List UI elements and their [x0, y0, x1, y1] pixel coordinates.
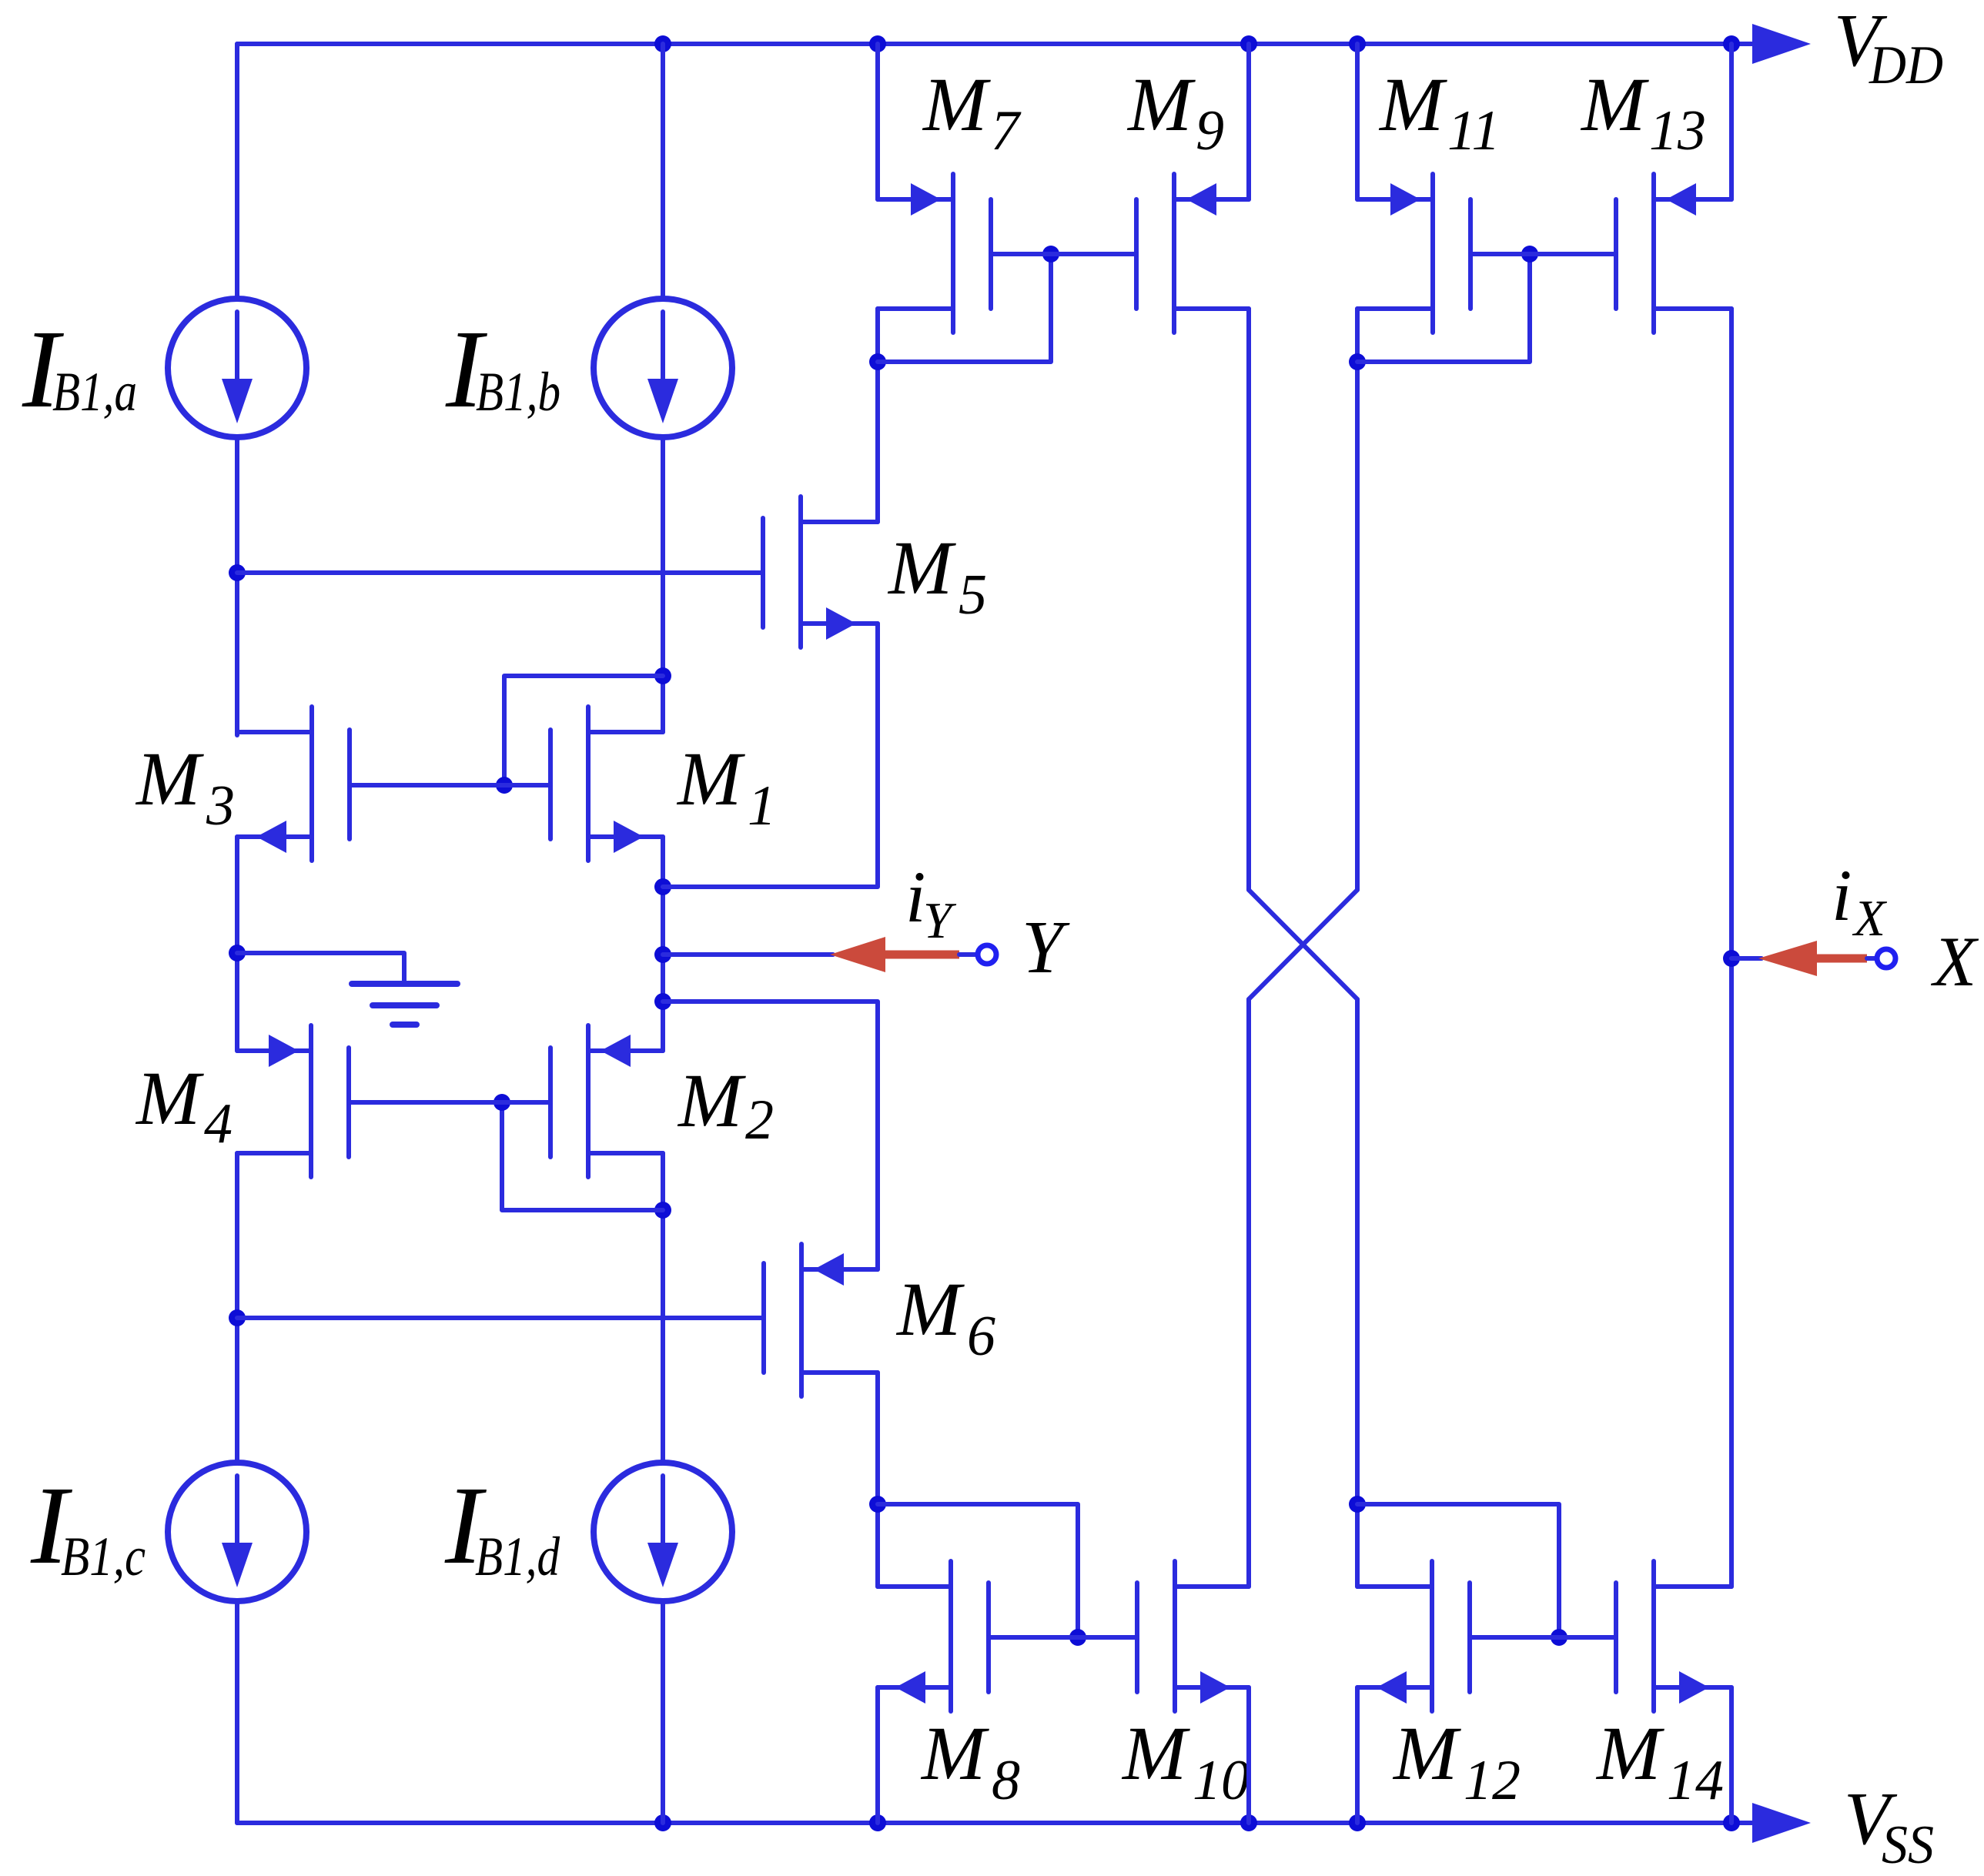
- transistor M4: [309, 1025, 313, 1177]
- svg-text:SS: SS: [1882, 1815, 1934, 1875]
- svg-text:11: 11: [1447, 99, 1501, 162]
- node dot M2-M4 gate: [493, 1094, 510, 1111]
- current source IB1,a: [168, 299, 306, 437]
- svg-text:M: M: [676, 736, 745, 821]
- wire: Y to M5 source: [663, 624, 878, 887]
- svg-text:9: 9: [1196, 99, 1224, 162]
- Y port terminal: [978, 945, 996, 964]
- svg-text:M: M: [1392, 1710, 1461, 1796]
- wire: IB1c to VSS rail: [235, 1600, 239, 1823]
- wire: M3 lower arm to M4 upper arm: [235, 837, 239, 1051]
- svg-text:M: M: [920, 1710, 989, 1796]
- wire: M4-M2 gate lead: [349, 1100, 550, 1105]
- wire: Y port stub: [959, 952, 977, 957]
- svg-text:1: 1: [748, 774, 776, 838]
- svg-text:6: 6: [967, 1305, 995, 1368]
- VSS rail arrow: [1752, 1803, 1811, 1843]
- node dot M7-M9 gate: [1042, 246, 1059, 263]
- wire: M11 drain down: [1355, 309, 1360, 890]
- transistor M3: [309, 707, 314, 861]
- wire: M2 drain to IB1d: [661, 1153, 665, 1463]
- svg-text:M: M: [135, 736, 204, 821]
- wire: M8 gate-drain tie: [878, 1504, 1078, 1637]
- wire: IB1d to VSS rail: [661, 1600, 665, 1823]
- wire: VDD rail: [237, 42, 1755, 46]
- svg-text:B1,c: B1,c: [61, 1526, 146, 1587]
- wire: M7-M9 gate lead: [991, 252, 1136, 256]
- wire: M10 source to VSS: [1246, 1687, 1251, 1823]
- node dot M11-M13 gate: [1521, 246, 1538, 263]
- node dot M6 gate tap: [229, 1309, 246, 1326]
- svg-text:M: M: [1595, 1710, 1664, 1796]
- transistor M11: [1430, 174, 1435, 333]
- transistor M6: [799, 1244, 804, 1396]
- wire: M13 drain to M14 drain (X column): [1729, 309, 1734, 1587]
- node dot Y-M5: [654, 878, 671, 895]
- wire: M8-M10 gate lead: [989, 1635, 1137, 1640]
- node dot M5 gate tap: [229, 564, 246, 581]
- wire: M12-M14 gate lead: [1470, 1635, 1616, 1640]
- wire: crossover diagonal M9-M12: [1249, 890, 1357, 999]
- wire: down to M12 drain: [1355, 999, 1360, 1587]
- svg-text:M: M: [1378, 62, 1447, 147]
- node dot M2 drain-gate tie: [654, 1202, 671, 1219]
- wire: VDD to M11 source: [1355, 44, 1360, 199]
- transistor M12: [1430, 1561, 1434, 1711]
- wire: IB1a to M3 source arm: [235, 437, 239, 735]
- node dot X port: [1723, 950, 1740, 967]
- node dot M1-M3 gate: [496, 777, 513, 794]
- svg-text:2: 2: [745, 1088, 774, 1152]
- wire: M1 gate tie: [504, 676, 663, 785]
- svg-text:M: M: [135, 1055, 204, 1141]
- node dot M7 drain tie: [869, 353, 886, 370]
- ground symbol: [352, 981, 457, 987]
- svg-text:M: M: [887, 525, 956, 610]
- X port current arrow i_X: [1814, 955, 1867, 963]
- node dots on VSS rail: [654, 1814, 671, 1831]
- svg-text:Y: Y: [923, 892, 957, 949]
- svg-text:10: 10: [1193, 1749, 1250, 1812]
- node dot M8-M10 gate: [1069, 1629, 1086, 1646]
- svg-text:B1,a: B1,a: [52, 361, 137, 423]
- wire: down to M10 drain: [1246, 999, 1251, 1587]
- wire: M11-M13 gate lead: [1470, 252, 1616, 256]
- wire: IB1b to M1 drain: [661, 437, 665, 732]
- wire: M9 drain down: [1246, 309, 1251, 890]
- wire: M12 source to VSS: [1355, 1687, 1360, 1823]
- wire: M14 source to VSS: [1729, 1687, 1734, 1823]
- wire: ground stub: [237, 953, 404, 984]
- svg-text:12: 12: [1464, 1749, 1521, 1812]
- svg-text:B1,b: B1,b: [476, 361, 560, 423]
- transistor M2: [586, 1025, 591, 1177]
- node dot M12-M14 gate: [1551, 1629, 1567, 1646]
- svg-text:M: M: [922, 62, 991, 147]
- wire: M7 drain to M5 drain: [875, 309, 880, 522]
- transistor M10: [1173, 1561, 1177, 1711]
- node dot M12 drain tie: [1349, 1496, 1366, 1513]
- node dot M1 drain-gate tie: [654, 667, 671, 684]
- wire: M2 gate tie: [502, 1102, 663, 1210]
- transistor M14: [1651, 1561, 1656, 1711]
- transistor M1: [586, 707, 591, 861]
- node dot ground tap: [229, 945, 246, 961]
- current source IB1,b: [594, 299, 732, 437]
- svg-text:i: i: [1832, 854, 1852, 936]
- node dots on VDD rail: [654, 35, 671, 52]
- svg-text:M: M: [1580, 62, 1649, 147]
- wire: M8 source to VSS: [875, 1687, 880, 1823]
- svg-text:Y: Y: [1022, 906, 1070, 988]
- wire: X line to port: [1731, 956, 1762, 961]
- svg-text:14: 14: [1667, 1749, 1724, 1812]
- svg-text:7: 7: [991, 99, 1022, 162]
- wire: VDD to M7 source: [875, 44, 880, 199]
- wire: M6 gate lead: [237, 1316, 764, 1320]
- VDD rail arrow: [1752, 24, 1811, 64]
- wire: M3-M1 gate lead: [350, 783, 550, 788]
- transistor M9: [1172, 174, 1176, 333]
- svg-text:DD: DD: [1869, 35, 1943, 95]
- wire: crossover diagonal M11-M10: [1249, 890, 1357, 999]
- transistor M5: [798, 497, 803, 647]
- Y port current arrow i_Y: [882, 951, 959, 959]
- svg-text:3: 3: [206, 774, 235, 838]
- svg-text:M: M: [1121, 1710, 1190, 1796]
- node dot M8 drain tie: [869, 1496, 886, 1513]
- wire: Y node column: [661, 837, 665, 1051]
- node dot Y port: [654, 946, 671, 963]
- svg-text:M: M: [895, 1266, 965, 1352]
- svg-text:X: X: [1852, 890, 1888, 947]
- wire: M12 gate-drain tie: [1357, 1504, 1559, 1637]
- wire: VDD to M9 source: [1246, 44, 1251, 199]
- transistor M13: [1651, 174, 1656, 333]
- transistor M7: [951, 174, 955, 333]
- wire: Y line to port: [663, 952, 833, 957]
- X port terminal: [1877, 949, 1895, 968]
- wire: M5 gate lead: [237, 570, 763, 575]
- wire: VDD to IB1b: [661, 44, 665, 299]
- wire: VSS rail: [237, 1821, 1755, 1825]
- wire: M11 gate-drain tie: [1357, 254, 1530, 362]
- current source IB1,c: [168, 1463, 306, 1601]
- svg-text:5: 5: [959, 563, 987, 627]
- current source IB1,d: [594, 1463, 732, 1601]
- svg-text:M: M: [677, 1058, 746, 1143]
- svg-text:8: 8: [992, 1749, 1020, 1812]
- wire: VDD to M13 source: [1729, 44, 1734, 199]
- wire: M6 source to M8 drain: [875, 1373, 880, 1587]
- wire: Y to M6 drain: [663, 1002, 878, 1269]
- svg-text:B1,d: B1,d: [475, 1526, 560, 1587]
- wire: VDD to IB1a: [235, 44, 239, 299]
- wire: M7 gate-drain tie: [878, 254, 1051, 362]
- wire: M4 lower arm to IB1c: [235, 1153, 239, 1463]
- node dot M11 drain tie: [1349, 353, 1366, 370]
- svg-text:X: X: [1930, 922, 1979, 1001]
- transistor M8: [949, 1561, 953, 1711]
- svg-text:4: 4: [204, 1092, 233, 1155]
- node dot Y-M6: [654, 993, 671, 1010]
- wire: X port stub: [1867, 956, 1875, 961]
- svg-text:13: 13: [1649, 99, 1706, 162]
- svg-text:M: M: [1126, 62, 1196, 147]
